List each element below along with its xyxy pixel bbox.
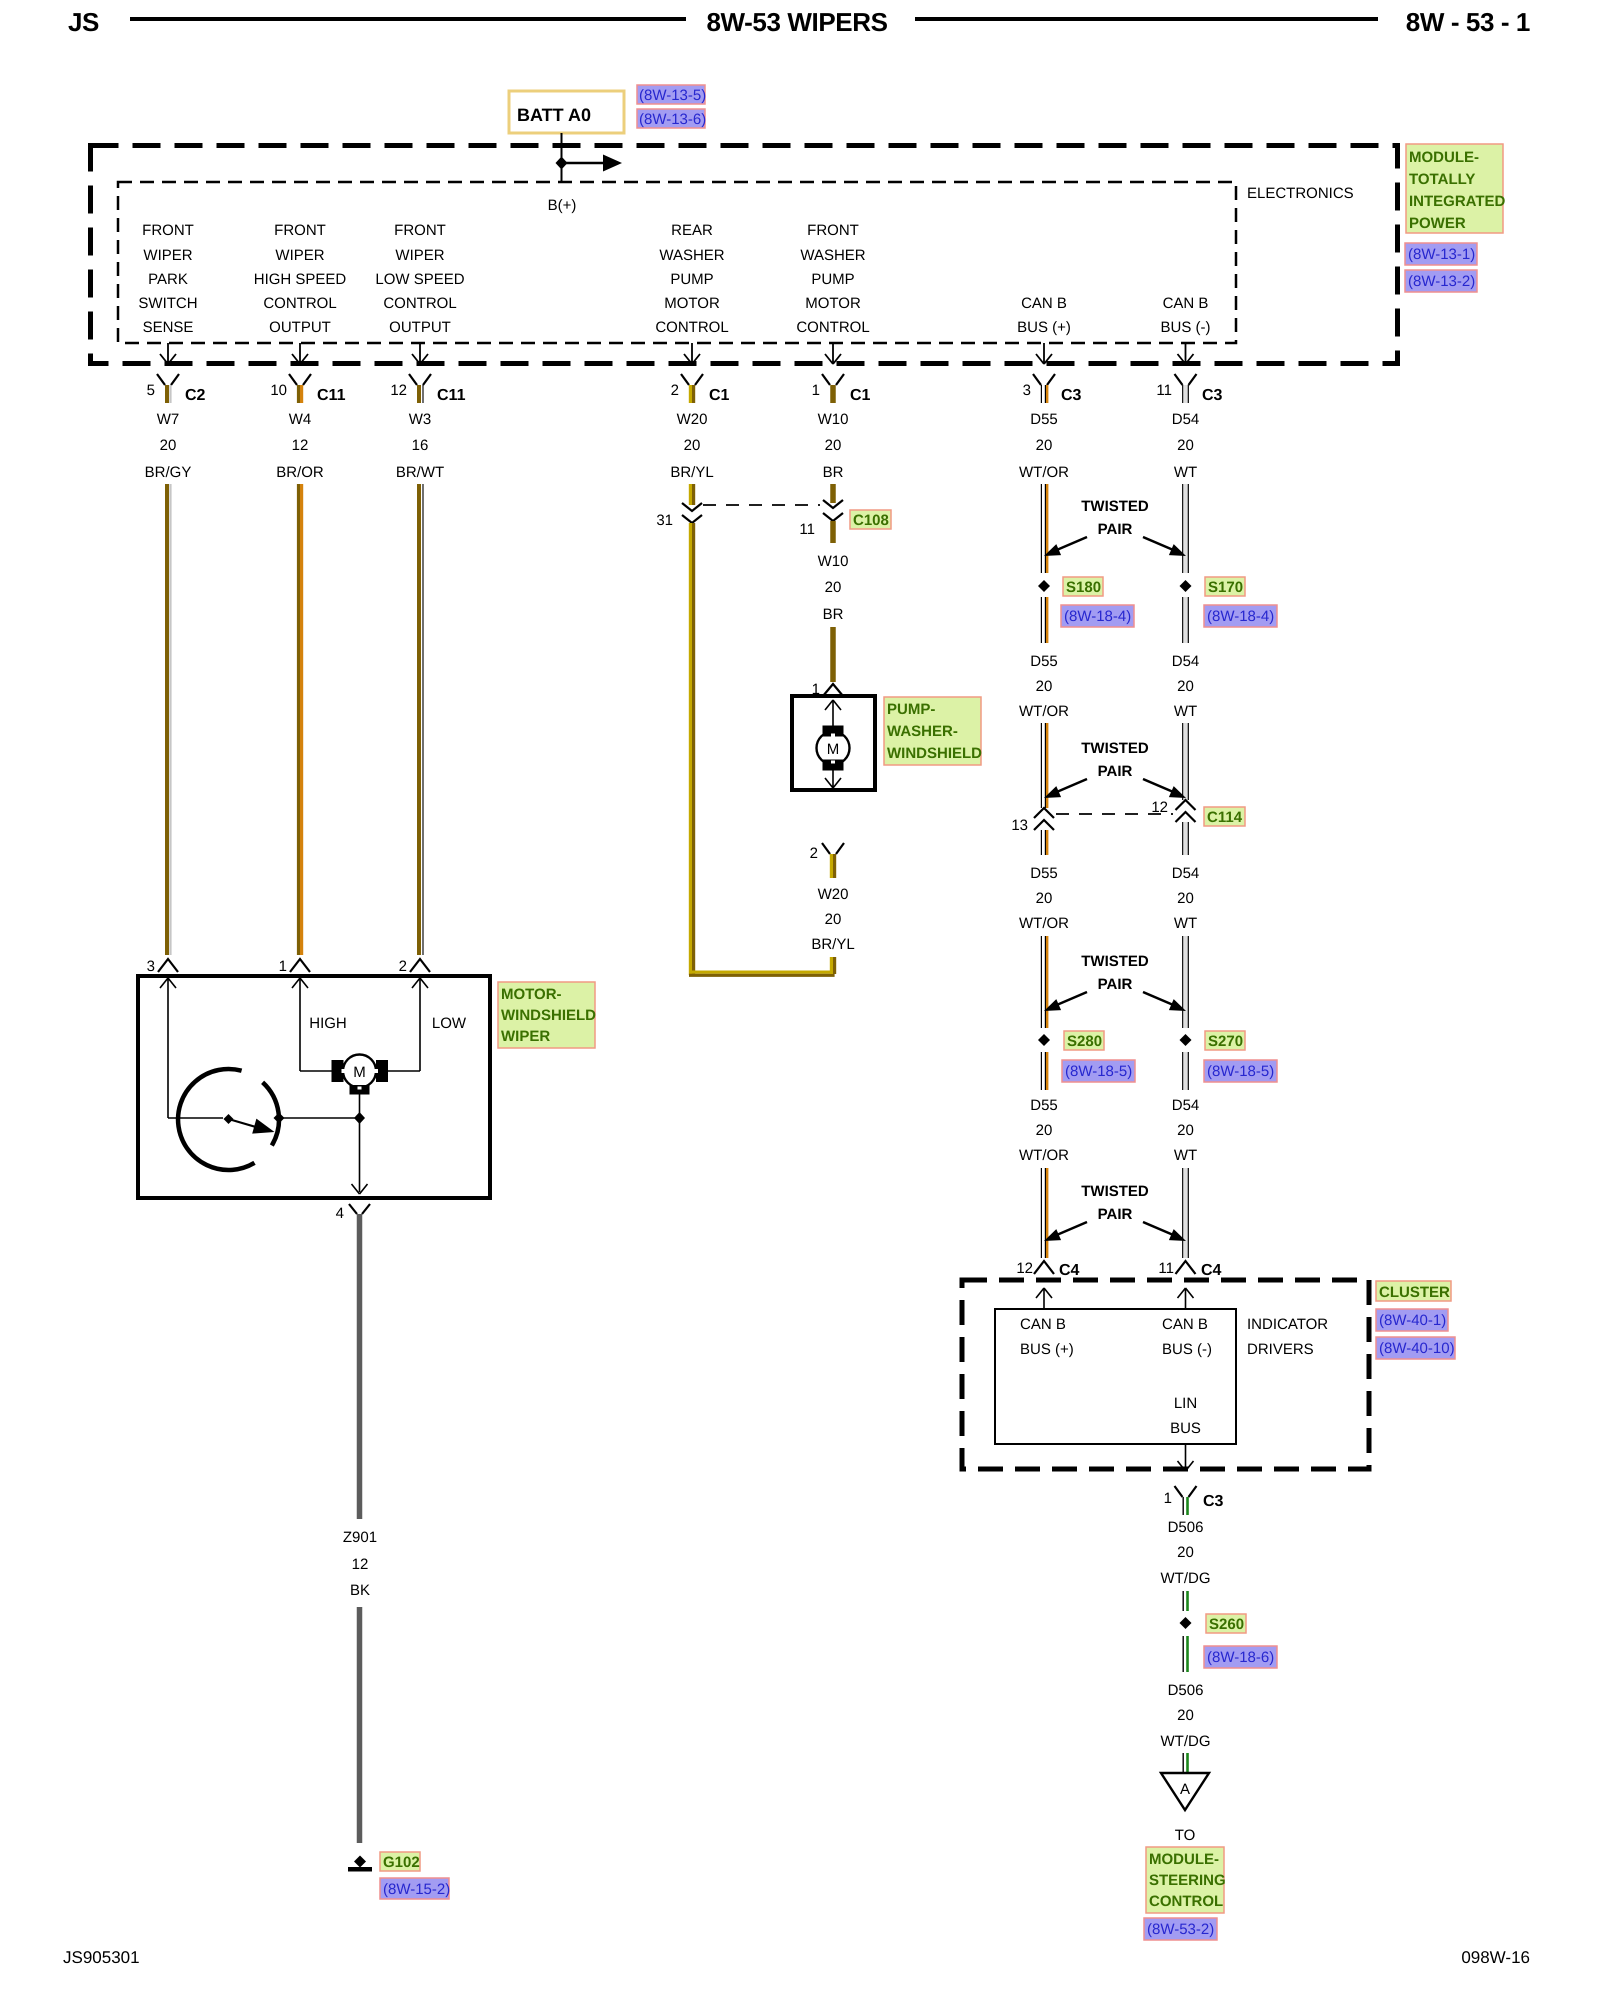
arrow B(+) feed to right xyxy=(562,162,605,165)
svg-text:W10: W10 xyxy=(818,411,849,428)
svg-text:MOTOR-: MOTOR- xyxy=(501,986,562,1003)
svg-text:C4: C4 xyxy=(1201,1262,1222,1279)
label C114 xyxy=(1204,807,1245,826)
twisted pair 3 arrow left xyxy=(1044,992,1087,1011)
svg-text:MODULE-: MODULE- xyxy=(1149,1851,1219,1868)
svg-text:WASHER: WASHER xyxy=(659,247,724,264)
svg-text:20: 20 xyxy=(1177,890,1194,907)
svg-text:WIPER: WIPER xyxy=(395,247,444,264)
svg-text:LOW: LOW xyxy=(432,1015,467,1032)
C108 connector dashed link xyxy=(703,504,820,506)
arrow: low speed control output exit xyxy=(412,343,428,364)
label twisted pair 1 xyxy=(1081,498,1149,538)
motor-windshield wiper pin 4 xyxy=(336,1204,370,1222)
page ref (8W-18-6) xyxy=(1204,1646,1277,1668)
label MODULE-TOTALLY INTEGRATED POWER xyxy=(1406,144,1506,233)
svg-text:20: 20 xyxy=(825,437,842,454)
svg-text:WASHER-: WASHER- xyxy=(887,723,958,740)
svg-text:(8W-40-10): (8W-40-10) xyxy=(1379,1340,1455,1357)
wire high brush xyxy=(300,1070,336,1072)
wire W10 BR stub from C1 pin 1 xyxy=(830,484,836,503)
splice S270 xyxy=(1180,1034,1192,1046)
wire W20 BR/YL bottom horizontal run xyxy=(689,972,835,975)
connector C11 pin 10 xyxy=(270,374,345,404)
svg-text:WIPER: WIPER xyxy=(275,247,324,264)
internal arrow pin 3 entry xyxy=(160,978,176,1118)
svg-text:WT: WT xyxy=(1174,464,1197,481)
svg-text:BK: BK xyxy=(350,1582,370,1599)
svg-text:PAIR: PAIR xyxy=(1098,763,1133,780)
wire park sense to park switch xyxy=(168,1117,223,1119)
label twisted pair 2 xyxy=(1081,740,1149,780)
park switch ring main arc xyxy=(178,1069,254,1170)
svg-text:TO: TO xyxy=(1175,1827,1196,1844)
svg-text:3: 3 xyxy=(1023,382,1031,399)
svg-text:(8W-18-5): (8W-18-5) xyxy=(1207,1063,1274,1080)
wire W20 BR/YL stub from C1 pin 2 xyxy=(690,484,693,505)
svg-text:WIPER: WIPER xyxy=(143,247,192,264)
wire label D506 20 WT/DG xyxy=(1161,1519,1211,1587)
svg-text:D54: D54 xyxy=(1172,865,1200,882)
svg-text:CONTROL: CONTROL xyxy=(383,295,456,312)
svg-text:INTEGRATED: INTEGRATED xyxy=(1409,193,1506,210)
svg-text:PARK: PARK xyxy=(148,271,188,288)
off-page connector triangle A xyxy=(1161,1773,1209,1810)
wire label D54 20 WT row4 xyxy=(1172,1097,1200,1164)
svg-text:TOTALLY: TOTALLY xyxy=(1409,171,1475,188)
TIPM pin label: front wiper park switch sense xyxy=(138,222,197,336)
connector C1 pin 1 xyxy=(812,374,871,404)
svg-text:OUTPUT: OUTPUT xyxy=(269,319,331,336)
svg-text:BUS (-): BUS (-) xyxy=(1161,319,1211,336)
TIPM pin label: front washer pump motor control xyxy=(796,222,869,336)
arrow: rear washer pump control exit xyxy=(684,343,700,364)
wire label W10 20 BR xyxy=(818,411,849,481)
TIPM pin label: front wiper low speed control output xyxy=(375,222,464,336)
svg-text:D506: D506 xyxy=(1168,1682,1204,1699)
label S180 xyxy=(1063,577,1103,596)
wire label D54 20 WT row2 xyxy=(1172,653,1200,720)
svg-text:CAN B: CAN B xyxy=(1021,295,1067,312)
svg-text:W10: W10 xyxy=(818,553,849,570)
wire park switch to motor return xyxy=(279,1117,360,1119)
wire D55 WT/OR segment 5 xyxy=(1041,936,1047,1028)
svg-text:20: 20 xyxy=(684,437,701,454)
wire D54 WT segment 2 xyxy=(1183,597,1189,643)
svg-text:20: 20 xyxy=(1177,1707,1194,1724)
svg-text:STEERING: STEERING xyxy=(1149,1872,1226,1889)
page ref (8W-53-2) xyxy=(1144,1918,1217,1940)
park switch wiper arm xyxy=(229,1119,257,1127)
wire D54 WT segment 1 xyxy=(1183,484,1189,573)
wire label W4 12 BR/OR xyxy=(276,411,324,481)
svg-text:(8W-18-5): (8W-18-5) xyxy=(1065,1063,1132,1080)
svg-text:D54: D54 xyxy=(1172,1097,1200,1114)
svg-text:20: 20 xyxy=(1177,678,1194,695)
svg-text:LIN: LIN xyxy=(1174,1395,1197,1412)
svg-text:G102: G102 xyxy=(383,1854,420,1871)
svg-text:31: 31 xyxy=(656,512,673,529)
wire label D54 20 WT row3 xyxy=(1172,865,1200,932)
svg-text:(8W-18-6): (8W-18-6) xyxy=(1207,1649,1274,1666)
wire label W20 20 BR/YL xyxy=(670,411,713,481)
svg-text:C3: C3 xyxy=(1061,387,1082,404)
arrow: high speed control output exit xyxy=(292,343,308,364)
svg-text:1: 1 xyxy=(1164,1490,1172,1507)
wire label W10 20 BR xyxy=(818,553,849,623)
connector C114 pin 12 xyxy=(1151,799,1195,822)
svg-text:BR/OR: BR/OR xyxy=(276,464,324,481)
svg-text:WT: WT xyxy=(1174,1147,1197,1164)
svg-text:WIPER: WIPER xyxy=(501,1028,550,1045)
svg-text:D506: D506 xyxy=(1168,1519,1204,1536)
svg-text:20: 20 xyxy=(1177,1122,1194,1139)
label PUMP-WASHER-WINDSHIELD xyxy=(884,697,982,765)
svg-text:12: 12 xyxy=(352,1556,369,1573)
wire label D55 20 WT/OR xyxy=(1019,411,1069,481)
page ref (8W-40-1) xyxy=(1376,1309,1448,1331)
wire D506 WT/DG segment 2 xyxy=(1183,1636,1187,1672)
wire label D55 20 WT/OR row3 xyxy=(1019,865,1069,932)
svg-text:11: 11 xyxy=(1156,382,1172,399)
page ref (8W-18-4) right xyxy=(1204,605,1277,627)
svg-text:(8W-13-2): (8W-13-2) xyxy=(1408,273,1475,290)
svg-text:(8W-18-4): (8W-18-4) xyxy=(1064,608,1131,625)
wire D54 WT segment 5 xyxy=(1183,936,1189,1028)
svg-text:20: 20 xyxy=(1036,437,1053,454)
svg-text:WT/OR: WT/OR xyxy=(1019,915,1069,932)
motor-windshield wiper pin 2 xyxy=(399,958,430,975)
svg-text:8W - 53 - 1: 8W - 53 - 1 xyxy=(1406,7,1530,37)
pump pin 2 xyxy=(810,843,844,862)
svg-text:16: 16 xyxy=(412,437,429,454)
svg-text:C108: C108 xyxy=(853,512,889,529)
label C108 xyxy=(850,510,891,529)
svg-text:TWISTED: TWISTED xyxy=(1081,498,1149,515)
svg-text:20: 20 xyxy=(825,911,842,928)
svg-text:2: 2 xyxy=(810,845,818,862)
wire label D54 20 WT xyxy=(1172,411,1200,481)
label S270 xyxy=(1205,1031,1245,1050)
svg-text:5: 5 xyxy=(147,382,155,399)
svg-text:PUMP: PUMP xyxy=(670,271,713,288)
pump-washer-windshield box xyxy=(792,696,875,790)
splice S260 xyxy=(1180,1617,1192,1629)
wire label D506 20 WT/DG row2 xyxy=(1161,1682,1211,1750)
wire W20 BR/YL long run xyxy=(690,523,693,975)
svg-text:CONTROL: CONTROL xyxy=(655,319,728,336)
svg-text:S260: S260 xyxy=(1209,1616,1244,1633)
svg-text:W3: W3 xyxy=(409,411,432,428)
svg-text:C11: C11 xyxy=(437,387,466,404)
connector C1 pin 2 xyxy=(671,374,730,404)
pump internal arrow down xyxy=(825,770,841,788)
svg-text:8W-53 WIPERS: 8W-53 WIPERS xyxy=(706,7,887,37)
svg-text:PAIR: PAIR xyxy=(1098,1206,1133,1223)
TIPM electronics inner dashed box xyxy=(118,182,1236,343)
cluster pin label CAN B BUS (-) xyxy=(1162,1316,1212,1358)
svg-text:S180: S180 xyxy=(1066,579,1101,596)
wire D506 WT/DG segment 3 xyxy=(1183,1753,1187,1773)
svg-text:WT: WT xyxy=(1174,703,1197,720)
connector C11 pin 12 xyxy=(390,374,465,404)
motor-windshield wiper box xyxy=(138,976,490,1198)
svg-text:C2: C2 xyxy=(185,387,206,404)
svg-text:POWER: POWER xyxy=(1409,215,1466,232)
wire D54 WT segment 7 xyxy=(1183,1168,1189,1258)
twisted pair 2 arrow left xyxy=(1044,779,1087,798)
TIPM pin label: front wiper high speed control output xyxy=(254,222,347,336)
park switch pivot node xyxy=(224,1114,234,1124)
cluster pin label LIN BUS xyxy=(1170,1395,1201,1437)
svg-text:PAIR: PAIR xyxy=(1098,976,1133,993)
page ref (8W-18-5) left xyxy=(1062,1060,1135,1082)
cluster dashed box xyxy=(962,1280,1369,1469)
cluster arrow CAN B - entry xyxy=(1178,1288,1194,1309)
label S170 xyxy=(1205,577,1245,596)
wire D55 WT/OR segment 6 xyxy=(1041,1052,1047,1090)
svg-text:D55: D55 xyxy=(1030,653,1058,670)
svg-text:M: M xyxy=(353,1064,366,1081)
label S280 xyxy=(1064,1031,1104,1050)
connector C4 pin 12 xyxy=(1016,1260,1079,1279)
TIPM pin label: CAN B BUS (-) xyxy=(1161,295,1211,336)
svg-text:OUTPUT: OUTPUT xyxy=(389,319,451,336)
svg-text:W4: W4 xyxy=(289,411,312,428)
svg-text:CONTROL: CONTROL xyxy=(263,295,336,312)
svg-text:11: 11 xyxy=(799,521,815,538)
wire label Z901 12 BK xyxy=(343,1529,377,1599)
internal arrow pin 2 entry (LOW) xyxy=(412,978,428,1071)
svg-text:D55: D55 xyxy=(1030,865,1058,882)
label MODULE-STEERING CONTROL xyxy=(1146,1847,1226,1913)
svg-text:SENSE: SENSE xyxy=(143,319,194,336)
page ref (8W-13-6) xyxy=(637,109,706,128)
wire W20 BR/YL riser to pump pin 2 xyxy=(831,957,834,974)
svg-text:M: M xyxy=(827,741,840,758)
svg-text:C1: C1 xyxy=(850,387,871,404)
svg-text:098W-16: 098W-16 xyxy=(1461,1948,1530,1967)
svg-text:TWISTED: TWISTED xyxy=(1081,740,1149,757)
battery feed box BATT A0 xyxy=(509,91,624,133)
wire label W20 20 BR/YL below pump xyxy=(811,886,854,953)
svg-text:12: 12 xyxy=(1016,1260,1033,1277)
svg-text:3: 3 xyxy=(147,958,155,975)
svg-text:WINDSHIELD: WINDSHIELD xyxy=(887,745,982,762)
svg-text:CAN B: CAN B xyxy=(1020,1316,1066,1333)
arrow: CAN B bus + exit xyxy=(1036,343,1052,364)
svg-text:INDICATOR: INDICATOR xyxy=(1247,1316,1328,1333)
svg-text:(8W-13-5): (8W-13-5) xyxy=(639,87,706,104)
svg-text:BATT A0: BATT A0 xyxy=(517,105,591,125)
svg-text:20: 20 xyxy=(1036,1122,1053,1139)
splice S280 xyxy=(1038,1034,1050,1046)
park switch contact node xyxy=(274,1113,285,1124)
TIPM pin label: CAN B BUS (+) xyxy=(1017,295,1071,336)
svg-text:20: 20 xyxy=(1036,890,1053,907)
connector C3 pin 1 (cluster LIN) xyxy=(1164,1486,1224,1515)
wire motor to ground junction xyxy=(359,1094,361,1192)
svg-text:FRONT: FRONT xyxy=(394,222,446,239)
wire label D55 20 WT/OR row4 xyxy=(1019,1097,1069,1164)
svg-text:CONTROL: CONTROL xyxy=(796,319,869,336)
node junction on B(+) wire xyxy=(556,157,568,170)
header rule right xyxy=(915,17,1378,21)
connector C4 pin 11 xyxy=(1158,1260,1221,1279)
svg-text:CAN B: CAN B xyxy=(1162,1316,1208,1333)
page ref (8W-15-2) xyxy=(380,1878,450,1899)
svg-text:WT/DG: WT/DG xyxy=(1161,1570,1211,1587)
svg-text:WASHER: WASHER xyxy=(800,247,865,264)
cluster pin label CAN B BUS (+) xyxy=(1020,1316,1074,1358)
svg-text:20: 20 xyxy=(1177,1544,1194,1561)
wire D55 WT/OR segment 1 xyxy=(1041,484,1047,573)
motor-windshield wiper pin 3 xyxy=(147,958,178,975)
arrow LIN bus exit xyxy=(1178,1444,1194,1471)
label G102 xyxy=(380,1852,420,1871)
svg-text:PUMP-: PUMP- xyxy=(887,701,935,718)
svg-text:BR/WT: BR/WT xyxy=(396,464,444,481)
svg-text:WT: WT xyxy=(1174,915,1197,932)
svg-text:D55: D55 xyxy=(1030,411,1058,428)
svg-text:(8W-13-6): (8W-13-6) xyxy=(639,111,706,128)
svg-text:11: 11 xyxy=(1158,1260,1174,1277)
svg-text:BUS: BUS xyxy=(1170,1420,1201,1437)
svg-text:2: 2 xyxy=(671,382,679,399)
cluster arrow CAN B + entry xyxy=(1036,1288,1052,1309)
label CLUSTER xyxy=(1376,1281,1451,1301)
svg-text:ELECTRONICS: ELECTRONICS xyxy=(1247,185,1354,202)
svg-text:S270: S270 xyxy=(1208,1033,1243,1050)
svg-text:TWISTED: TWISTED xyxy=(1081,1183,1149,1200)
svg-text:13: 13 xyxy=(1011,817,1028,834)
svg-text:D54: D54 xyxy=(1172,411,1200,428)
svg-text:S170: S170 xyxy=(1208,579,1243,596)
wire D54 WT segment 4 xyxy=(1183,822,1189,855)
svg-text:PAIR: PAIR xyxy=(1098,521,1133,538)
svg-text:FRONT: FRONT xyxy=(274,222,326,239)
svg-text:(8W-18-4): (8W-18-4) xyxy=(1207,608,1274,625)
svg-text:BR/YL: BR/YL xyxy=(670,464,713,481)
wire W7 BR/GY park switch sense xyxy=(167,484,171,955)
page ref (8W-18-5) right xyxy=(1204,1060,1277,1082)
svg-text:(8W-40-1): (8W-40-1) xyxy=(1379,1312,1446,1329)
wire W3 BR/WT low speed xyxy=(419,484,423,955)
internal arrow pin 4 exit xyxy=(352,1184,368,1194)
pump internal arrow up xyxy=(825,700,841,727)
washer pump motor M xyxy=(817,726,850,771)
svg-text:BR: BR xyxy=(823,464,844,481)
svg-text:FRONT: FRONT xyxy=(142,222,194,239)
svg-text:12: 12 xyxy=(390,382,407,399)
svg-text:BR/YL: BR/YL xyxy=(811,936,854,953)
svg-text:SWITCH: SWITCH xyxy=(138,295,197,312)
page ref (8W-13-5) xyxy=(637,85,706,104)
svg-text:WT/OR: WT/OR xyxy=(1019,703,1069,720)
svg-text:2: 2 xyxy=(399,958,407,975)
svg-text:BR/GY: BR/GY xyxy=(145,464,192,481)
arrow: front washer pump control exit xyxy=(825,343,841,364)
wiper motor M xyxy=(332,1055,389,1095)
svg-text:D54: D54 xyxy=(1172,653,1200,670)
connector C2 pin 5 xyxy=(147,374,206,404)
svg-text:WT/OR: WT/OR xyxy=(1019,464,1069,481)
svg-text:MOTOR: MOTOR xyxy=(664,295,720,312)
connector C3 pin 11 xyxy=(1156,374,1222,404)
wire B(+) vertical from BATT A0 xyxy=(561,133,563,182)
svg-text:WT/OR: WT/OR xyxy=(1019,1147,1069,1164)
svg-text:12: 12 xyxy=(292,437,309,454)
arrow: CAN B bus - exit xyxy=(1178,343,1194,364)
splice S180 xyxy=(1038,580,1050,592)
page ref (8W-13-2) xyxy=(1405,270,1477,292)
wire low brush xyxy=(384,1070,420,1072)
svg-text:A: A xyxy=(1180,1781,1190,1798)
svg-text:(8W-15-2): (8W-15-2) xyxy=(383,1881,450,1898)
svg-text:20: 20 xyxy=(160,437,177,454)
wire D54 WT segment 6 xyxy=(1183,1052,1189,1090)
svg-text:D55: D55 xyxy=(1030,1097,1058,1114)
connector C108 pin 31 xyxy=(656,503,702,529)
svg-text:BUS (+): BUS (+) xyxy=(1020,1341,1074,1358)
wire D55 WT/OR segment 7 xyxy=(1041,1168,1047,1258)
svg-text:FRONT: FRONT xyxy=(807,222,859,239)
label twisted pair 4 xyxy=(1081,1183,1149,1223)
svg-text:BUS (-): BUS (-) xyxy=(1162,1341,1212,1358)
svg-text:MODULE-: MODULE- xyxy=(1409,149,1479,166)
twisted pair 4 arrow right xyxy=(1143,1222,1186,1241)
svg-text:WT/DG: WT/DG xyxy=(1161,1733,1211,1750)
wire W10 BR below C108 xyxy=(830,521,836,543)
TIPM pin label: rear washer pump motor control xyxy=(655,222,728,336)
svg-text:B(+): B(+) xyxy=(548,197,577,214)
svg-text:DRIVERS: DRIVERS xyxy=(1247,1341,1314,1358)
svg-text:1: 1 xyxy=(812,382,820,399)
svg-text:MOTOR: MOTOR xyxy=(805,295,861,312)
twisted pair 4 arrow left xyxy=(1044,1222,1087,1241)
svg-text:4: 4 xyxy=(336,1205,344,1222)
wire label D55 20 WT/OR row2 xyxy=(1019,653,1069,720)
twisted pair 3 arrow right xyxy=(1143,992,1186,1011)
connector C3 pin 3 xyxy=(1023,374,1082,404)
node junction motor return xyxy=(354,1112,365,1124)
header rule left xyxy=(130,17,686,21)
svg-text:C3: C3 xyxy=(1203,1493,1224,1510)
wire Z901 BK lower xyxy=(357,1607,363,1843)
wire D55 WT/OR segment 3 xyxy=(1041,723,1047,808)
svg-text:(8W-13-1): (8W-13-1) xyxy=(1408,246,1475,263)
svg-text:(8W-53-2): (8W-53-2) xyxy=(1147,1921,1214,1938)
svg-text:BR: BR xyxy=(823,606,844,623)
svg-text:WINDSHIELD: WINDSHIELD xyxy=(501,1007,596,1024)
svg-text:W20: W20 xyxy=(818,886,849,903)
svg-text:Z901: Z901 xyxy=(343,1529,377,1546)
wire D506 WT/DG segment 1 xyxy=(1183,1591,1187,1611)
wire label W7 20 BR/GY xyxy=(145,411,192,481)
svg-text:C4: C4 xyxy=(1059,1262,1080,1279)
page ref (8W-13-1) xyxy=(1405,243,1477,265)
svg-text:C114: C114 xyxy=(1207,809,1243,826)
twisted pair 1 arrow right xyxy=(1143,537,1186,556)
arrow: park switch sense output exit xyxy=(160,343,176,364)
svg-text:CAN B: CAN B xyxy=(1163,295,1209,312)
svg-text:W20: W20 xyxy=(677,411,708,428)
wire D54 WT segment 3 xyxy=(1183,723,1189,800)
connector C114 pin 13 xyxy=(1011,808,1054,834)
splice S170 xyxy=(1180,580,1192,592)
svg-text:TWISTED: TWISTED xyxy=(1081,953,1149,970)
pump pin 1 xyxy=(812,681,843,698)
